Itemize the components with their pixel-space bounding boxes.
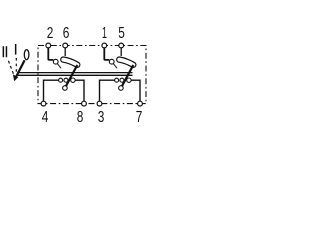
wire from terminal 6 down to moving paddle — [64, 48, 66, 56]
fixed contact circles on bottom-left box — [59, 78, 63, 82]
moving contact paddle (right pole) — [119, 60, 133, 65]
bottom-left box: terminal 8 wire — [75, 80, 84, 101]
terminal 3 node — [97, 101, 102, 106]
terminal 8 node — [82, 101, 87, 106]
pivot contact circle (right pole) — [119, 86, 124, 91]
wire from terminal 1 down to fixed contact — [104, 48, 109, 60]
svg-text:5: 5 — [118, 25, 125, 42]
terminal 2 node — [46, 43, 51, 48]
contact spring of terminal 2 — [57, 64, 61, 68]
dashed travel line to position II — [8, 61, 13, 75]
svg-text:8: 8 — [77, 109, 84, 126]
manual lever (at position 0) — [16, 60, 24, 76]
bottom-right box: terminal 3 wire — [100, 80, 115, 101]
fixed contact circle of terminal 1 — [109, 59, 114, 64]
dash-dot enclosure border through terminals — [38, 46, 146, 104]
svg-text:7: 7 — [136, 109, 143, 126]
fixed contact circle of terminal 2 — [53, 59, 58, 64]
terminal 6 node — [63, 43, 68, 48]
dashed travel line to position I — [15, 58, 17, 72]
label 0 (position 0) — [24, 50, 29, 60]
terminal 7 node — [138, 101, 143, 106]
wire from terminal 2 down to fixed contact — [48, 48, 53, 60]
svg-text:1: 1 — [102, 25, 107, 42]
pivot contact circle (left pole) — [63, 86, 68, 91]
bottom-right box: terminal 7 wire — [131, 80, 140, 101]
label I (position I) — [15, 44, 17, 55]
label II (position II) — [3, 46, 8, 57]
contact spring of terminal 1 — [113, 64, 117, 68]
terminal 4 node — [41, 101, 46, 106]
fixed contact circles on bottom-right box — [115, 78, 119, 82]
wire from terminal 5 down to moving paddle — [120, 48, 122, 56]
svg-text:6: 6 — [63, 25, 70, 42]
moving contact arm (left pole) — [66, 65, 77, 86]
terminal 5 node — [119, 43, 124, 48]
mechanical linkage double bar — [19, 72, 133, 74]
bottom-left box: terminal 4 wire — [44, 80, 59, 101]
moving contact paddle (left pole) — [63, 60, 77, 65]
svg-text:4: 4 — [42, 109, 49, 126]
svg-text:3: 3 — [98, 109, 105, 126]
terminal 1 node — [102, 43, 107, 48]
moving contact arm (right pole) — [122, 65, 133, 86]
svg-text:2: 2 — [47, 25, 54, 42]
lever arrowhead — [13, 74, 18, 81]
